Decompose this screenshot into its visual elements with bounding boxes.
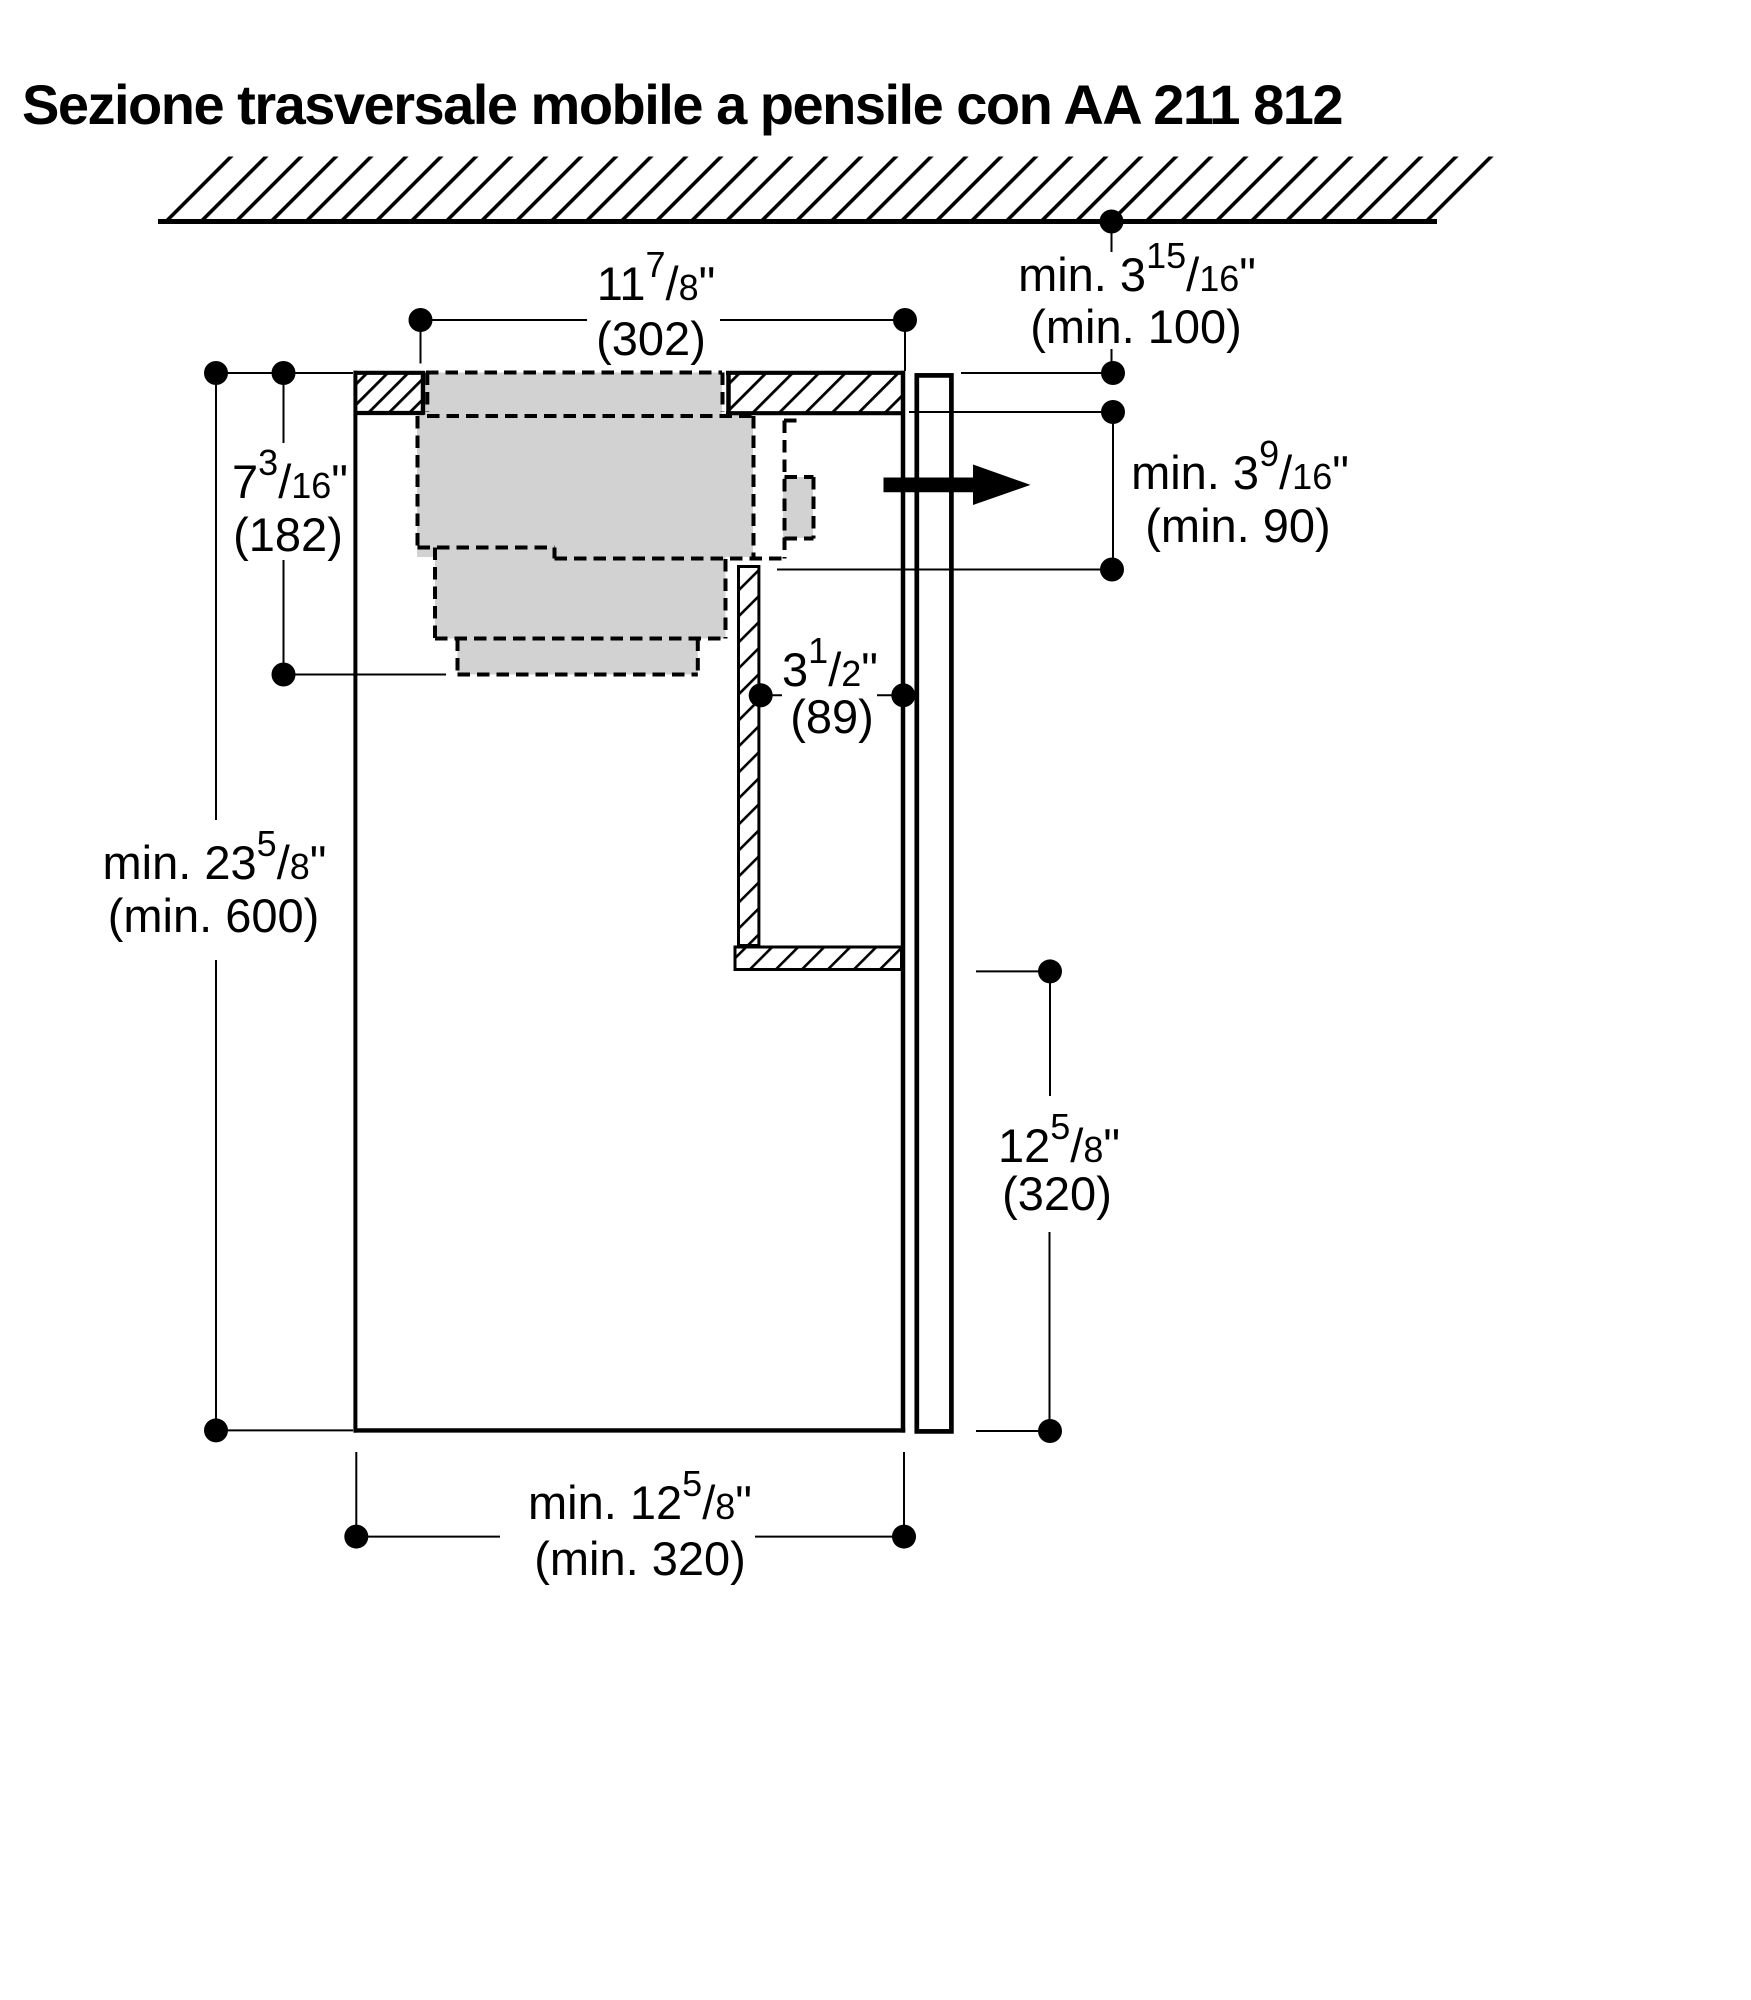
top panel right hatched block [727, 374, 903, 412]
svg-text:(min. 90): (min. 90) [1145, 499, 1330, 552]
dimension 11 7/8 right extension [904, 320, 906, 371]
182 bottom reference line [284, 674, 447, 676]
min 320 left dot [344, 1525, 368, 1549]
dashed small alt box: bottom edge [785, 537, 814, 541]
bottom left reference line [216, 1429, 353, 1431]
left outer top dot [204, 361, 228, 385]
ceiling reference dot [1100, 210, 1124, 234]
ceiling line [158, 219, 1437, 224]
panel bottom reference line to dot [909, 411, 1113, 413]
top panel left hatched block [356, 374, 423, 412]
dashed duct alt position: top hook [784, 419, 798, 423]
flue channel vertical hatched bar [739, 567, 759, 946]
320 dimension line lower [1049, 1232, 1051, 1431]
320 lower reference line [976, 1430, 1050, 1432]
flue channel bottom hatched bar [735, 947, 902, 970]
panel bottom reference dot [1101, 400, 1125, 424]
svg-text:(min. 100): (min. 100) [1030, 300, 1242, 353]
min 100 extension line lower [1111, 349, 1113, 373]
320 upper reference line [976, 970, 1050, 972]
320 upper dot [1038, 959, 1062, 983]
dashed hood top box: top edge [426, 371, 722, 375]
dashed small alt box: right edge [812, 477, 816, 539]
dashed hood lower: bottom edge [458, 673, 698, 677]
min 100 extension line upper [1111, 222, 1113, 253]
min 320 dimension line right segment [755, 1536, 904, 1538]
89 dimension line right segment [877, 694, 903, 696]
cabinet top reference dot [1101, 361, 1125, 385]
89 dimension line left segment [761, 694, 782, 696]
left inner top dot [272, 361, 296, 385]
dashed hood middle: bottom edge [435, 637, 726, 641]
89 dimension right dot [891, 683, 915, 707]
dashed line under top panel [427, 414, 754, 418]
min 320 left extension [355, 1452, 357, 1537]
dashed hood middle: right edge [724, 559, 728, 639]
cabinet top reference line to dot [961, 372, 1113, 374]
dashed hood lower: left edge [456, 639, 460, 675]
top panel bottom line right segment [726, 411, 905, 415]
dashed hood body: bottom right part [555, 557, 785, 561]
dashed hood top box: left edge [425, 373, 429, 413]
dashed hood body: bottom left part [418, 546, 555, 550]
svg-text:(89): (89) [790, 690, 874, 743]
svg-text:(min. 320): (min. 320) [534, 1532, 746, 1585]
dimension 11 7/8 line left segment [421, 319, 588, 321]
dashed hood lower: right edge [696, 639, 700, 675]
dimension 11 7/8 left dot [409, 308, 433, 332]
grey small duct alt box [783, 477, 813, 538]
top panel bottom line left segment [354, 411, 425, 415]
dashed duct alt position: vertical [783, 421, 787, 559]
cabinet top line left segment [354, 371, 425, 375]
cabinet left wall [353, 371, 357, 1433]
min 320 dimension line left segment [356, 1536, 500, 1538]
dashed hood top box: right edge [721, 373, 725, 413]
182 bottom dot [272, 663, 296, 687]
grey hood top duct box [426, 373, 722, 414]
cabinet right wall [901, 371, 906, 1433]
svg-text:(182): (182) [233, 508, 343, 561]
hood bottom reference dot [1100, 558, 1124, 582]
min 600 dimension line upper [215, 373, 217, 820]
dashed hood body: left edge [416, 416, 420, 548]
ceiling hatch [158, 157, 1512, 222]
hood bottom reference line [777, 569, 1112, 571]
dashed small alt box: top edge [785, 475, 814, 479]
door panel [917, 375, 952, 1431]
dashed hood middle: left edge [433, 548, 437, 639]
cabinet bottom [354, 1428, 906, 1432]
dimension 11 7/8 left extension [420, 320, 422, 364]
grey hood middle body [435, 548, 726, 639]
89 dimension left dot [749, 683, 773, 707]
bottom left dot [204, 1418, 228, 1442]
recess left edge [421, 371, 426, 415]
grey hood main body [417, 414, 753, 558]
svg-text:Sezione trasversale mobile a p: Sezione trasversale mobile a pensile con… [22, 73, 1342, 136]
recess right edge [726, 371, 731, 415]
dimension 11 7/8 line right segment [720, 319, 905, 321]
dashed hood body: bottom step [553, 548, 557, 559]
min 320 right dot [892, 1525, 916, 1549]
svg-text:(min. 600): (min. 600) [108, 889, 320, 942]
cabinet top line right segment [726, 371, 905, 375]
min 320 right extension [903, 1452, 905, 1537]
dashed hood body: right edge [752, 416, 756, 559]
left top reference line [216, 372, 353, 374]
182 dimension line upper [283, 373, 285, 443]
svg-text:(302): (302) [596, 312, 706, 365]
grey hood lower body [458, 639, 698, 675]
320 lower dot [1038, 1419, 1062, 1443]
min 600 dimension line lower [215, 960, 217, 1430]
182 dimension line lower [283, 560, 285, 675]
min 90 dimension line [1112, 412, 1114, 570]
dimension 11 7/8 right dot [893, 308, 917, 332]
svg-text:(320): (320) [1002, 1167, 1112, 1220]
arrow (pull-out direction) [884, 465, 1031, 506]
320 dimension line upper [1049, 971, 1051, 1096]
